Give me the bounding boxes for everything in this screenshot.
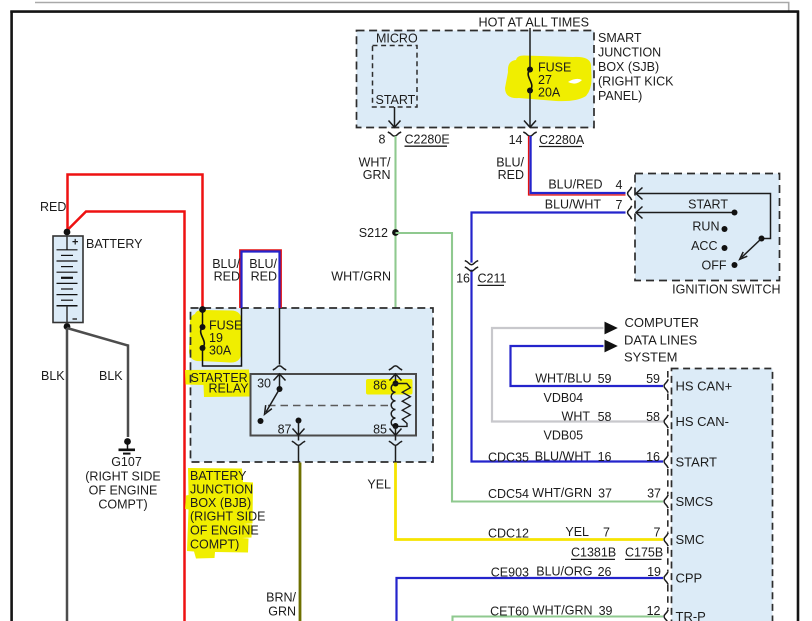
highlight battery junction box label (185, 468, 253, 559)
label battery junction box (190, 469, 265, 552)
svg-text:(RIGHT SIDE: (RIGHT SIDE (85, 470, 160, 484)
svg-text:DATA LINES: DATA LINES (624, 333, 698, 348)
svg-text:WHT/GRN: WHT/GRN (532, 486, 592, 500)
label smart junction box (598, 31, 674, 103)
svg-text:YEL: YEL (565, 525, 589, 539)
relay pin 87 (278, 418, 306, 463)
label WHT/GRN lower (331, 270, 391, 284)
svg-text:PANEL): PANEL) (598, 89, 642, 103)
svg-text:BLU/RED: BLU/RED (548, 178, 602, 192)
wire WHT/GRN branch S212 to SMCS (396, 233, 664, 502)
ignition internal wire pin 4 to pivot (636, 188, 771, 239)
wire RED battery to BJB feed (68, 212, 185, 621)
svg-text:VDB04: VDB04 (544, 391, 584, 405)
svg-text:87: 87 (278, 423, 292, 437)
svg-text:16: 16 (646, 450, 660, 464)
battery (53, 229, 143, 330)
svg-text:16: 16 (598, 450, 612, 464)
svg-text:RED: RED (40, 200, 66, 214)
wire WHT/GRN CET60 to TR-P (453, 617, 664, 621)
svg-text:19: 19 (647, 565, 661, 579)
svg-text:CDC12: CDC12 (488, 527, 529, 541)
highlight relay pin 86 (366, 379, 413, 395)
svg-text:COMPT): COMPT) (190, 538, 239, 552)
svg-text:ACC: ACC (691, 239, 717, 253)
label BLU/WHT pin 7 (545, 198, 623, 213)
svg-text:16: 16 (456, 272, 470, 286)
svg-text:RED: RED (498, 168, 524, 182)
row WHT/BLU 59 HS CAN+ (535, 372, 732, 394)
svg-text:BLU/WHT: BLU/WHT (545, 198, 602, 212)
svg-text:WHT/GRN: WHT/GRN (533, 604, 593, 618)
svg-text:12: 12 (647, 604, 661, 618)
svg-text:HS CAN+: HS CAN+ (676, 379, 733, 394)
svg-text:C1381B: C1381B (571, 546, 616, 560)
smart junction box SJB (357, 31, 595, 128)
wire micro start to pin 8 (389, 107, 401, 127)
svg-text:GRN: GRN (268, 605, 296, 619)
wire WHT/GRN pin 8 to S212 to relay 86 (394, 136, 396, 365)
svg-text:START: START (688, 198, 728, 212)
svg-text:37: 37 (598, 487, 612, 501)
svg-text:BATTERY: BATTERY (190, 469, 247, 483)
svg-text:BLU/WHT: BLU/WHT (535, 450, 592, 464)
svg-text:HOT AT ALL TIMES: HOT AT ALL TIMES (479, 16, 590, 30)
connector pin 8 C2280E (379, 132, 450, 147)
svg-text:VDB05: VDB05 (544, 429, 584, 443)
svg-text:+: + (72, 237, 78, 249)
relay coil resistor (396, 384, 411, 427)
svg-text:IGNITION SWITCH: IGNITION SWITCH (672, 283, 780, 297)
svg-text:HS CAN-: HS CAN- (676, 414, 729, 429)
ground G107 (85, 438, 160, 511)
svg-text:58: 58 (646, 410, 660, 424)
highlight over fuse 27 (505, 56, 592, 102)
svg-text:WHT/GRN: WHT/GRN (331, 270, 391, 284)
starter relay box (251, 374, 417, 436)
label STARTER RELAY (191, 371, 250, 396)
label RED (40, 200, 66, 214)
svg-text:7: 7 (616, 198, 623, 212)
svg-text:SMART: SMART (598, 31, 642, 45)
ignition contacts START RUN ACC OFF (688, 198, 737, 273)
svg-text:G107: G107 (111, 455, 142, 469)
svg-text:59: 59 (646, 372, 660, 386)
svg-text:COMPT): COMPT) (98, 498, 147, 512)
svg-text:OF ENGINE: OF ENGINE (89, 484, 158, 498)
wire BLU/RED pin 14 to ignition pin 4 (529, 136, 626, 195)
svg-text:RED: RED (251, 270, 277, 284)
wire BLK battery negative down (41, 328, 67, 621)
svg-text:85: 85 (373, 423, 387, 437)
wire fuse 19 to BLU/RED loop (black inside box) (203, 308, 242, 366)
row CET60 WHT/GRN 39 TR-P (490, 604, 706, 621)
svg-text:JUNCTION: JUNCTION (190, 483, 253, 497)
svg-text:COMPUTER: COMPUTER (625, 315, 699, 330)
svg-text:(RIGHT KICK: (RIGHT KICK (598, 75, 674, 89)
svg-text:C2280A: C2280A (539, 133, 585, 147)
svg-text:S212: S212 (359, 226, 388, 240)
svg-text:SMCS: SMCS (676, 494, 714, 509)
wire BLU/ORG CE903 to CPP (397, 578, 664, 621)
svg-text:BRN/: BRN/ (266, 591, 296, 605)
label BLU/RED left (212, 257, 240, 284)
svg-text:GRN: GRN (363, 168, 391, 182)
ignition switch box (635, 174, 781, 297)
row WHT 58 HS CAN- (562, 410, 729, 430)
module box (right) (668, 369, 773, 621)
micro start relay box (inner dashed) (373, 32, 418, 108)
svg-text:86: 86 (373, 379, 387, 393)
svg-text:BLK: BLK (99, 369, 123, 383)
svg-text:SYSTEM: SYSTEM (624, 350, 677, 365)
svg-text:SMC: SMC (676, 532, 705, 547)
svg-text:BLK: BLK (41, 369, 65, 383)
row CE903 BLU/ORG 26 CPP (491, 565, 702, 586)
wire BLU/RED loop to relay 30 (240, 250, 281, 365)
arrow computer data line 1 (605, 322, 618, 335)
row CDC35 BLU/WHT 16 START (488, 450, 717, 470)
svg-text:BLU/ORG: BLU/ORG (536, 565, 592, 579)
svg-text:WHT/BLU: WHT/BLU (535, 372, 591, 386)
svg-text:39: 39 (599, 604, 613, 618)
wire WHT/BLU data line to computer arrow (511, 346, 664, 386)
fuse F19 (199, 306, 242, 357)
svg-text:30A: 30A (209, 344, 232, 358)
svg-text:WHT: WHT (562, 410, 591, 424)
svg-text:BOX (BJB): BOX (BJB) (190, 496, 251, 510)
connector relay pin 86 (373, 366, 402, 393)
connector ignition pin 4 (628, 187, 632, 200)
label BLU/RED horizontal pin 4 (548, 178, 622, 193)
svg-text:JUNCTION: JUNCTION (598, 46, 661, 60)
svg-text:OFF: OFF (702, 259, 727, 273)
svg-text:59: 59 (598, 372, 612, 386)
label BLU/RED right (249, 257, 277, 284)
svg-text:RELAY: RELAY (209, 382, 250, 396)
svg-text:CET60: CET60 (490, 605, 529, 619)
label HOT AT ALL TIMES (479, 16, 590, 30)
wire WHT data line to computer arrow (492, 328, 663, 422)
label computer data lines system (624, 315, 699, 365)
svg-text:CE903: CE903 (491, 566, 529, 580)
wire hot feed into fuse 27 (529, 28, 531, 69)
svg-text:CDC54: CDC54 (488, 487, 529, 501)
label VDB04 (544, 391, 584, 405)
wire BLU/WHT ignition pin 7 to C211 to START (472, 213, 664, 462)
label BLU/RED vertical (496, 156, 524, 183)
svg-text:CPP: CPP (676, 571, 703, 586)
label VDB05 (544, 429, 584, 443)
connector labels C1381B C175B (571, 546, 663, 560)
svg-text:BOX (SJB): BOX (SJB) (598, 60, 659, 74)
fuse F27 (527, 61, 571, 100)
svg-text:7: 7 (654, 526, 661, 540)
svg-text:CDC35: CDC35 (488, 451, 529, 465)
wire BRN/GRN relay 87 down (266, 463, 300, 621)
svg-text:37: 37 (647, 487, 661, 501)
wire YEL relay 85 to SMC (367, 463, 663, 540)
wire fuse 27 to pin 14 (524, 91, 536, 128)
svg-text:20A: 20A (538, 86, 561, 100)
svg-text:RUN: RUN (692, 220, 719, 234)
svg-text:YEL: YEL (367, 478, 391, 492)
row CDC54 WHT/GRN 37 SMCS (488, 486, 713, 509)
svg-text:C2280E: C2280E (405, 133, 450, 147)
svg-text:BATTERY: BATTERY (86, 237, 143, 251)
relay coil (391, 381, 398, 427)
highlight STARTER RELAY (185, 370, 253, 398)
svg-text:30: 30 (257, 377, 271, 391)
battery junction box BJB border (191, 308, 434, 462)
svg-text:58: 58 (598, 410, 612, 424)
svg-text:OF ENGINE: OF ENGINE (190, 524, 259, 538)
node S212 (359, 226, 399, 240)
relay switch blade (258, 386, 283, 424)
wire RED battery to fuse 19 (68, 175, 203, 309)
svg-text:26: 26 (598, 565, 612, 579)
connector C211 (456, 261, 506, 286)
ignition internal wire pin 7 to START contact (636, 207, 735, 219)
svg-text:START: START (676, 455, 717, 470)
svg-text:START: START (376, 93, 416, 107)
svg-text:4: 4 (616, 178, 623, 192)
relay pin 85 (373, 423, 402, 463)
svg-text:MICRO: MICRO (376, 32, 418, 46)
svg-text:(RIGHT SIDE: (RIGHT SIDE (190, 510, 265, 524)
svg-text:RED: RED (214, 270, 240, 284)
svg-text:7: 7 (603, 526, 610, 540)
battery junction box BJB (191, 308, 434, 462)
highlight over fuse 19 (189, 310, 242, 363)
wire BLK battery to G107 (67, 328, 128, 437)
connector relay pin 30 (257, 366, 286, 391)
svg-text:C175B: C175B (625, 546, 663, 560)
arrow computer data line 2 (605, 340, 618, 353)
svg-text:C211: C211 (478, 272, 507, 286)
connector pin 14 C2280A (509, 132, 585, 147)
svg-text:8: 8 (379, 133, 386, 147)
svg-text:TR-P: TR-P (676, 609, 706, 621)
connector ignition pin 7 (628, 206, 632, 219)
row CDC12 YEL 7 SMC (488, 525, 704, 547)
label WHT/GRN upper (359, 156, 391, 183)
svg-text:14: 14 (509, 133, 523, 147)
ignition switch lever (740, 236, 765, 260)
